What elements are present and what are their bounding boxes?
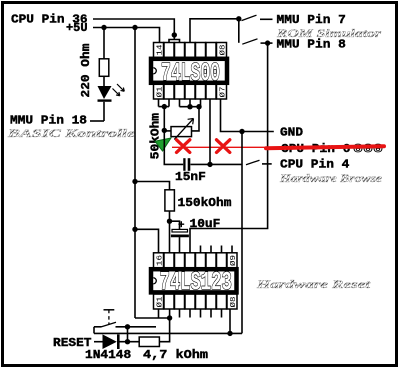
svg-text:Ø1: Ø1 (156, 86, 165, 98)
wire left rail bottom to U2 pins 1,2 (135, 309, 170, 342)
switch S2 to MMU Pin 8 (242, 39, 272, 44)
svg-text:+5U: +5U (66, 21, 88, 35)
label 15nF (175, 170, 206, 184)
node CPU Pin 4 label (280, 158, 350, 172)
svg-text:14: 14 (157, 44, 165, 56)
junction MMU7 (236, 16, 241, 21)
wire U1 pins 1,2 joined (159, 99, 170, 131)
push button S4 RESET (94, 310, 156, 342)
svg-text:74LS123: 74LS123 (160, 266, 232, 297)
U1 bottom pin boxes (154, 84, 227, 99)
switch S3 to CPU Pin 4 (246, 160, 272, 165)
svg-text:MMU Pin 7: MMU Pin 7 (277, 13, 346, 27)
wire U1 pin 7 to GND (221, 99, 274, 132)
resistor R3 4,7 kOhm (139, 337, 159, 347)
junction MMU8 (265, 40, 270, 45)
junction pot right drop (196, 104, 201, 109)
junction pins1-2 (162, 104, 167, 109)
svg-text:Ø9: Ø9 (229, 254, 238, 266)
svg-text:Ø1: Ø1 (156, 296, 165, 308)
resistor R2 150kOhm (135, 182, 174, 254)
node RESET label (53, 336, 92, 350)
junction U2 pin8 (227, 331, 232, 336)
wire +5V rail to pin 14 of U1 (93, 28, 160, 44)
U2 top stub pins 12,11,10,09 (201, 246, 233, 254)
label ROM Simulator (gray italic) (276, 28, 382, 40)
pin label 01 (156, 86, 165, 98)
junction pin6/15nF (207, 162, 212, 167)
node MMU Pin 18 label (10, 114, 87, 128)
svg-text:CPU Pin 4: CPU Pin 4 (280, 158, 350, 172)
U2 bottom stub pins 3,4,5,6,7 (180, 309, 222, 318)
svg-text:000: 000 (353, 142, 383, 156)
node MMU Pin 7 label (277, 13, 346, 27)
U2 top pin boxes (154, 253, 238, 268)
svg-text:MMU Pin 8: MMU Pin 8 (277, 38, 346, 52)
junction pin4 (187, 104, 192, 109)
pin label 09 (229, 254, 238, 266)
red X mark 1 (177, 140, 190, 153)
svg-text:220 Ohm: 220 Ohm (79, 44, 93, 98)
wire U1 pin 6 down (209, 99, 211, 165)
node +5V label (66, 21, 88, 35)
pin label 01 U2 (156, 296, 165, 308)
label Hardware Reset (gray italic) (255, 279, 371, 291)
junction CPU36 (172, 32, 177, 37)
svg-text:74LS00: 74LS00 (161, 58, 220, 89)
junction diode cathode (125, 339, 130, 344)
red wire crossed out line (172, 146, 385, 148)
junction 150k / 10uF (167, 219, 172, 224)
svg-text:1N4148: 1N4148 (85, 348, 131, 362)
label 1N4148 (85, 348, 131, 362)
op IC U1 74LS00 body (151, 59, 227, 83)
svg-text:15nF: 15nF (175, 170, 206, 184)
label 000 outline (353, 142, 383, 156)
svg-text:4,7 kOhm: 4,7 kOhm (143, 348, 208, 362)
pin label 07 (219, 87, 228, 98)
node GND label (280, 126, 303, 140)
pin label 16 (157, 254, 165, 266)
label BASIC Kontrolle (gray italic) (6, 128, 135, 140)
label 50kOhm (vertical) (149, 113, 163, 159)
svg-text:10uF: 10uF (190, 217, 221, 231)
label 150kOhm (178, 196, 232, 210)
resistor R1 220 Ohm (99, 28, 109, 77)
wire CPU Pin 36 to pins 13,12 of U1 (93, 19, 180, 43)
wire pot junction down to 15nF (164, 130, 183, 164)
op IC U2 74LS123 body (151, 269, 237, 292)
wire left rail to U2 pin 16 (135, 229, 159, 253)
red strikethrough (266, 146, 384, 148)
U2 bottom pin boxes (154, 294, 238, 309)
wire GND vertical down to reset rail (241, 132, 243, 334)
svg-text:50kOhm: 50kOhm (149, 113, 163, 159)
label 10uF (190, 217, 221, 231)
svg-text:Hardware Browse: Hardware Browse (279, 173, 382, 185)
svg-text:16: 16 (157, 254, 165, 266)
node MMU Pin 8 label (277, 38, 346, 52)
label Hardware Browse (gray italic) (279, 173, 382, 185)
pin label 08 U2 (229, 296, 238, 308)
wire MMU Pin 18 to LED (90, 120, 104, 122)
junction GND (239, 129, 244, 134)
capacitor C2 10uF electrolytic (170, 221, 189, 253)
junction left rail / 150k (132, 179, 137, 184)
wire U1 pins 3,4,5 joined (180, 99, 201, 131)
pin label 14 (157, 44, 165, 56)
svg-text:Ø7: Ø7 (219, 87, 228, 98)
wire reset rail to U2 pin 8 and GND rail (94, 309, 242, 334)
diode D2 1N4148 (94, 334, 139, 349)
green arrow marker (155, 138, 171, 151)
junction pin2 rail (167, 315, 172, 320)
svg-text:Ø8: Ø8 (219, 44, 228, 56)
junction +5V / left rail (132, 25, 137, 30)
label 74LS123 (160, 266, 232, 297)
svg-text:BASIC Kontrolle: BASIC Kontrolle (6, 128, 135, 140)
red X mark 2 (217, 140, 230, 153)
LED D1 (98, 76, 125, 121)
node CPU Pin 6 label (crossed out) (281, 142, 350, 156)
junction button right contact (125, 324, 130, 329)
U1 top pin boxes (154, 43, 227, 58)
pin label 08 (219, 44, 228, 56)
svg-text:Hardware Reset: Hardware Reset (255, 279, 371, 291)
svg-text:150kOhm: 150kOhm (178, 196, 232, 210)
wire down to MMU Pin 8 switch (238, 19, 240, 43)
wire U1 pin 11 up to MMU switches (190, 19, 239, 43)
capacitor C1 15nF (184, 158, 242, 171)
svg-text:Ø8: Ø8 (229, 296, 238, 308)
junction +5V / 220 Ohm (101, 25, 106, 30)
wire MMU8 vertical down to U2 pin 13 (190, 43, 268, 253)
junction left rail / U2 pin16 branch (132, 227, 137, 232)
node CPU Pin 36 label (11, 13, 88, 27)
label 220 Ohm (vertical) (79, 44, 93, 98)
switch S1 to MMU Pin 7 (242, 15, 273, 20)
label 74LS00 (161, 58, 220, 89)
junction pot left (162, 128, 167, 133)
wire left +5V rail (vertical x=135) (134, 28, 136, 319)
svg-text:GND: GND (280, 126, 303, 140)
label 4,7 kOhm (143, 348, 208, 362)
potentiometer P1 50kOhm (164, 119, 193, 140)
svg-text:MMU Pin 18: MMU Pin 18 (10, 114, 87, 128)
